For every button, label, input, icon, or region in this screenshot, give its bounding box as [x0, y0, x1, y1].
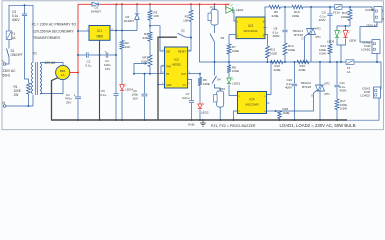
LED2 red — [198, 102, 209, 114]
wire R11 bottom — [267, 58, 269, 62]
wire IC4 pin4 — [267, 110, 276, 112]
wire CV stub — [188, 80, 192, 101]
resistor R7 — [227, 35, 239, 55]
node VR1 bottom — [149, 73, 151, 75]
optocoupler IC3 MOC3043 — [236, 17, 265, 39]
node R18 bottom — [279, 119, 281, 121]
svg-text:PZ1: PZ1 — [210, 5, 216, 9]
caption piezo — [211, 124, 256, 128]
node LED4 bottom — [121, 119, 123, 121]
svg-text:MT2: MT2 — [316, 27, 322, 31]
svg-text:G: G — [301, 37, 303, 41]
triac TRIAC1 BT136 — [292, 7, 321, 62]
wire rail2 a — [281, 6, 293, 8]
svg-text:LED2: LED2 — [201, 111, 209, 115]
node cap line right — [115, 54, 117, 56]
wire junction to pin7 — [150, 26, 165, 51]
svg-text:1N4007: 1N4007 — [124, 19, 135, 23]
svg-text:33K: 33K — [142, 36, 147, 40]
svg-text:OUT: OUT — [181, 73, 187, 76]
wire mid rail y62 — [199, 3, 230, 62]
svg-text:L: L — [3, 59, 5, 63]
wire R15 split — [337, 21, 350, 31]
preset VR1 — [134, 55, 152, 74]
label 230V AC 50Hz — [3, 69, 17, 78]
svg-text:400V: 400V — [340, 89, 347, 93]
node C8 top — [284, 6, 286, 8]
svg-text:IC4: IC4 — [250, 98, 255, 102]
regulator IC1 7809 — [87, 26, 114, 41]
wire reset riser — [188, 38, 191, 52]
svg-text:S2: S2 — [181, 29, 185, 33]
capacitor C1 470u — [65, 73, 81, 121]
node triac2 bottom — [319, 119, 321, 121]
svg-text:LED6: LED6 — [349, 39, 357, 43]
caption loads — [280, 123, 356, 128]
connector CON2 — [361, 40, 380, 54]
node PZ1 top — [214, 3, 216, 5]
svg-text:S3: S3 — [221, 36, 225, 40]
svg-text:LED5: LED5 — [327, 40, 335, 44]
fuse F2 — [333, 5, 342, 15]
svg-text:1A: 1A — [337, 11, 341, 15]
svg-text:400V: 400V — [285, 86, 292, 90]
wire L to S1 — [6, 57, 9, 64]
node R7 bottom — [228, 61, 230, 63]
svg-text:400V: 400V — [12, 18, 20, 22]
ground rail — [51, 119, 347, 121]
LED6 red — [343, 30, 356, 43]
svg-text:12V AC: 12V AC — [45, 61, 57, 65]
svg-text:100E: 100E — [232, 49, 239, 53]
node R14 bottom — [329, 61, 331, 63]
resistor R9 — [269, 5, 281, 18]
wire BR1 minus black — [52, 78, 58, 120]
node PZ2 bottom — [219, 119, 221, 121]
node R13 bottom — [284, 61, 286, 63]
capacitor C10 — [285, 62, 297, 120]
svg-text:220E: 220E — [274, 68, 281, 72]
connector CON1 — [365, 7, 384, 28]
svg-text:MT2: MT2 — [325, 82, 331, 86]
wire primary bottom — [32, 95, 34, 106]
svg-text:10K: 10K — [183, 18, 188, 22]
svg-text:1W: 1W — [14, 93, 19, 97]
wire R4 to VR1 — [149, 41, 151, 55]
wire IC1 out — [110, 30, 116, 32]
svg-text:0.1u: 0.1u — [86, 63, 92, 67]
svg-text:100E: 100E — [270, 51, 277, 55]
node R5 top — [190, 3, 192, 5]
svg-text:1A: 1A — [61, 73, 65, 77]
node C10 col — [294, 61, 296, 63]
wire PZ2 down — [219, 107, 221, 120]
piezo buzzer PZ2 — [214, 87, 226, 107]
svg-text:25V: 25V — [66, 100, 71, 104]
svg-text:GND: GND — [166, 84, 172, 87]
svg-text:IC1: IC1 — [97, 29, 102, 33]
wire F1 up and top-left rail — [9, 5, 33, 62]
resistor R2 — [120, 41, 130, 50]
svg-text:CON1: CON1 — [365, 8, 374, 12]
svg-text:10K: 10K — [154, 14, 159, 18]
node C11 col — [336, 61, 338, 63]
wire out stub — [188, 73, 200, 75]
node IC1 gnd rail — [99, 119, 101, 121]
capacitor C11 — [334, 62, 346, 99]
svg-text:LOAD2: LOAD2 — [361, 94, 371, 98]
wire pin6 stub — [161, 66, 165, 74]
wire LED3 to IC4 — [229, 85, 238, 96]
switch S3 — [210, 34, 225, 43]
svg-text:TR: TR — [166, 73, 169, 76]
wire VR1 bottom — [149, 67, 151, 74]
wire R2 column — [121, 4, 123, 40]
wire R13 bottom — [284, 55, 286, 62]
svg-text:0.5W: 0.5W — [340, 107, 347, 111]
svg-text:220E: 220E — [292, 14, 299, 18]
node C6 bottom — [144, 119, 146, 121]
switch S1 — [7, 49, 23, 58]
capacitor C9 — [318, 7, 332, 44]
node S2 right — [190, 37, 192, 39]
wire y62 to CON2/CON3 — [354, 54, 381, 90]
node IC4 pin4 — [275, 110, 277, 112]
wire trigger line — [133, 73, 165, 75]
wire N line — [6, 105, 33, 107]
wire S4 to PZ2 — [215, 84, 221, 91]
wire R2 to LED4 — [121, 49, 123, 85]
node 116 top — [116, 3, 118, 5]
terminal L (230V AC live) — [3, 59, 6, 65]
wire R6 to LED2 — [199, 86, 201, 105]
node IC1 out — [115, 30, 117, 32]
piezo buzzer PZ1 — [208, 4, 218, 25]
fuse F3 — [346, 60, 354, 74]
wire secondary top to BR1 — [40, 63, 63, 66]
diode D1 — [91, 2, 102, 13]
bridge rectifier BR1 — [56, 65, 70, 79]
svg-text:10K: 10K — [125, 45, 130, 49]
wire IC3 pin2 — [229, 34, 236, 36]
svg-text:MT1: MT1 — [316, 35, 322, 39]
transformer X1 — [31, 52, 41, 96]
wire rail2 b — [303, 6, 335, 8]
triac TRIAC2 BT136 — [276, 62, 331, 120]
timer IC2 NE555 — [162, 47, 190, 88]
wire into IC1 — [78, 30, 89, 32]
wire red top rail left — [78, 3, 92, 5]
wire S3 down — [214, 42, 216, 62]
svg-text:LED1: LED1 — [236, 8, 244, 12]
svg-text:BT136: BT136 — [302, 85, 311, 89]
svg-text:1N4007: 1N4007 — [91, 9, 102, 13]
resistor R3 — [148, 4, 159, 20]
resistor R16 — [297, 60, 309, 72]
node 116 bottom — [115, 119, 117, 121]
svg-text:50Hz: 50Hz — [3, 74, 11, 78]
wire secondary bottom to BR1 — [40, 80, 63, 94]
svg-text:THR: THR — [166, 65, 171, 68]
svg-text:MT1: MT1 — [325, 92, 331, 96]
svg-text:0.01u: 0.01u — [182, 96, 190, 100]
switch S4 — [212, 62, 221, 84]
node D2 top — [136, 3, 138, 5]
wire IC3 pin4 stub — [264, 35, 268, 47]
svg-text:+: + — [74, 94, 76, 98]
node R2 top — [121, 3, 123, 31]
node R3 top — [149, 3, 151, 5]
node R11 bottom — [267, 61, 269, 63]
wire PZ1 to S3 — [214, 25, 216, 33]
capacitor C5 — [101, 89, 119, 97]
svg-text:IC3: IC3 — [248, 24, 253, 28]
svg-text:400V: 400V — [273, 34, 280, 38]
optocoupler IC4 MOC3043 — [238, 92, 267, 114]
svg-text:BT136: BT136 — [294, 33, 303, 37]
svg-text:TRANSFORMER: TRANSFORMER — [33, 36, 61, 40]
svg-text:ON/OFF: ON/OFF — [11, 53, 23, 57]
border frame — [2, 1, 384, 130]
wire BR1 plus red — [70, 72, 78, 74]
diode D2 — [124, 4, 140, 30]
svg-text:7809: 7809 — [96, 34, 103, 38]
wire IC4 pin2 — [234, 111, 238, 120]
node R1-N — [28, 105, 30, 107]
LED4 red — [120, 84, 134, 92]
node C1 top — [77, 72, 79, 74]
resistor R11 — [266, 46, 278, 58]
capacitor C8 — [273, 7, 288, 43]
node C9 col — [329, 6, 331, 8]
svg-text:100E: 100E — [203, 82, 210, 86]
wire IC3 pin6 riser — [264, 7, 266, 21]
node R3-R4 junction — [149, 20, 151, 32]
capacitor C4 — [100, 50, 117, 72]
node triac2 col — [319, 61, 321, 63]
capacitor C2 — [78, 52, 100, 67]
resistor R5 — [183, 4, 193, 22]
svg-text:12V,250mA SECONDARY: 12V,250mA SECONDARY — [33, 30, 75, 34]
node triac1 gate col — [304, 61, 306, 63]
wire out line y29 — [116, 30, 137, 32]
node C6 top — [144, 73, 146, 75]
wire 116 column — [115, 4, 117, 120]
node R15 top — [349, 6, 351, 8]
LED1 green — [226, 4, 244, 14]
resistor R4 — [142, 32, 152, 41]
resistor R18 — [276, 107, 290, 120]
wire rail2 c — [342, 7, 374, 10]
node S3 bottom — [214, 61, 216, 63]
wire red vertical — [77, 4, 79, 72]
capacitor C6 — [132, 74, 148, 120]
wire red top rail — [99, 3, 229, 5]
svg-text:MOC3043: MOC3043 — [245, 103, 259, 107]
resistor R15 — [341, 7, 352, 21]
svg-text:1A: 1A — [347, 70, 351, 74]
svg-text:DIS: DIS — [166, 50, 170, 53]
svg-text:N: N — [382, 17, 384, 21]
node IC1 input — [77, 30, 79, 32]
node LED2 bottom — [199, 119, 201, 121]
svg-text:S4: S4 — [217, 78, 221, 82]
node IC4 pin2 bottom — [233, 119, 235, 121]
wire R5 to S2 node — [190, 22, 192, 38]
resistor R14 — [319, 44, 332, 56]
wire black gnd riser — [158, 37, 177, 119]
node out — [199, 73, 201, 75]
svg-text:100E: 100E — [283, 111, 290, 115]
resistor R10 — [292, 5, 303, 18]
wire CON1 N to CON2 — [360, 22, 377, 42]
label 12V AC — [45, 61, 57, 65]
wire IC3 pin5 stub — [264, 27, 267, 29]
node R17 bottom — [336, 119, 338, 121]
terminal N (neutral) — [3, 101, 6, 107]
fuse F1 — [6, 31, 16, 40]
svg-text:400V: 400V — [318, 18, 325, 22]
svg-text:X1: X1 — [33, 52, 37, 56]
wire R14 bottom — [329, 54, 331, 62]
svg-text:IC2: IC2 — [174, 58, 179, 62]
wire R1 to N line — [28, 94, 30, 106]
node IC4 pin6 top — [270, 61, 272, 63]
svg-text:220E: 220E — [299, 68, 306, 72]
svg-text:GND: GND — [188, 123, 196, 127]
resistor R8 — [227, 62, 239, 73]
switch S2 — [178, 29, 192, 38]
svg-text:+: + — [105, 50, 107, 54]
svg-text:LOAD1: LOAD1 — [361, 48, 371, 52]
LED5 green — [327, 30, 342, 44]
wire rail2 start — [265, 6, 270, 8]
wire IC4 pin5 stub — [267, 102, 270, 104]
svg-text:16V: 16V — [133, 96, 138, 100]
node C10 bottom — [294, 119, 296, 121]
node C1 bottom — [77, 119, 79, 121]
svg-text:X1 = 230V AC PRIMARY TO: X1 = 230V AC PRIMARY TO — [32, 23, 77, 27]
wire y62 right — [229, 61, 346, 63]
node cap line left — [77, 54, 79, 56]
svg-text:100E: 100E — [232, 69, 239, 73]
wire LED4 down — [121, 92, 123, 121]
connector CON3 — [361, 87, 381, 99]
svg-text:LOAD1, LOAD2 = 230V AC, 50W BU: LOAD1, LOAD2 = 230V AC, 50W BULB — [280, 123, 356, 128]
svg-text:100E: 100E — [288, 48, 295, 52]
capacitor C3 — [12, 5, 27, 22]
wire CON3 return — [346, 98, 379, 120]
resistor R12 — [271, 60, 284, 72]
svg-text:100E: 100E — [341, 15, 348, 19]
wire LED2 down — [199, 110, 201, 121]
svg-text:PZ1, PZ2 = PIEZO-BUZZER: PZ1, PZ2 = PIEZO-BUZZER — [211, 124, 256, 128]
svg-text:PZ2: PZ2 — [220, 87, 226, 91]
wire R7 bottom — [228, 54, 230, 62]
label X1 description — [32, 23, 77, 41]
svg-text:LED3: LED3 — [233, 81, 241, 85]
svg-text:220E: 220E — [272, 14, 279, 18]
node C7 bottom — [191, 119, 193, 121]
wire LED pair join — [337, 39, 346, 64]
wire LED1 to IC3 pin1 — [233, 10, 236, 21]
capacitor C7 — [182, 92, 194, 120]
resistor R13 snubber — [283, 43, 295, 55]
svg-text:RESET: RESET — [178, 50, 187, 53]
node cap line gnd — [99, 54, 101, 56]
resistor R17 — [335, 99, 347, 111]
wire IC4 pin6 riser — [267, 62, 272, 95]
svg-text:0.1u: 0.1u — [101, 93, 107, 97]
wire pin1 gnd stub — [157, 84, 165, 86]
svg-text:16V: 16V — [105, 67, 110, 71]
node triac1 col — [310, 6, 312, 8]
LED3 green — [227, 77, 241, 86]
wire R8 to LED3 — [228, 73, 230, 79]
svg-text:0.5W: 0.5W — [319, 52, 326, 56]
svg-text:MOC3043: MOC3043 — [244, 29, 258, 33]
wire IC1 gnd — [99, 40, 101, 120]
svg-text:NE555: NE555 — [172, 63, 181, 67]
wire R17 bottom — [336, 110, 338, 121]
resistor R1 — [14, 83, 31, 97]
svg-text:CV: CV — [183, 84, 187, 87]
wire C3 to R1 — [25, 16, 29, 83]
wire S1 to F1 — [8, 40, 10, 49]
svg-text:230V AC: 230V AC — [3, 69, 17, 73]
svg-text:100K: 100K — [141, 59, 148, 63]
ground symbol — [188, 119, 206, 127]
resistor R6 — [198, 74, 210, 86]
svg-text:G: G — [311, 94, 313, 98]
node C3 top — [24, 4, 26, 6]
